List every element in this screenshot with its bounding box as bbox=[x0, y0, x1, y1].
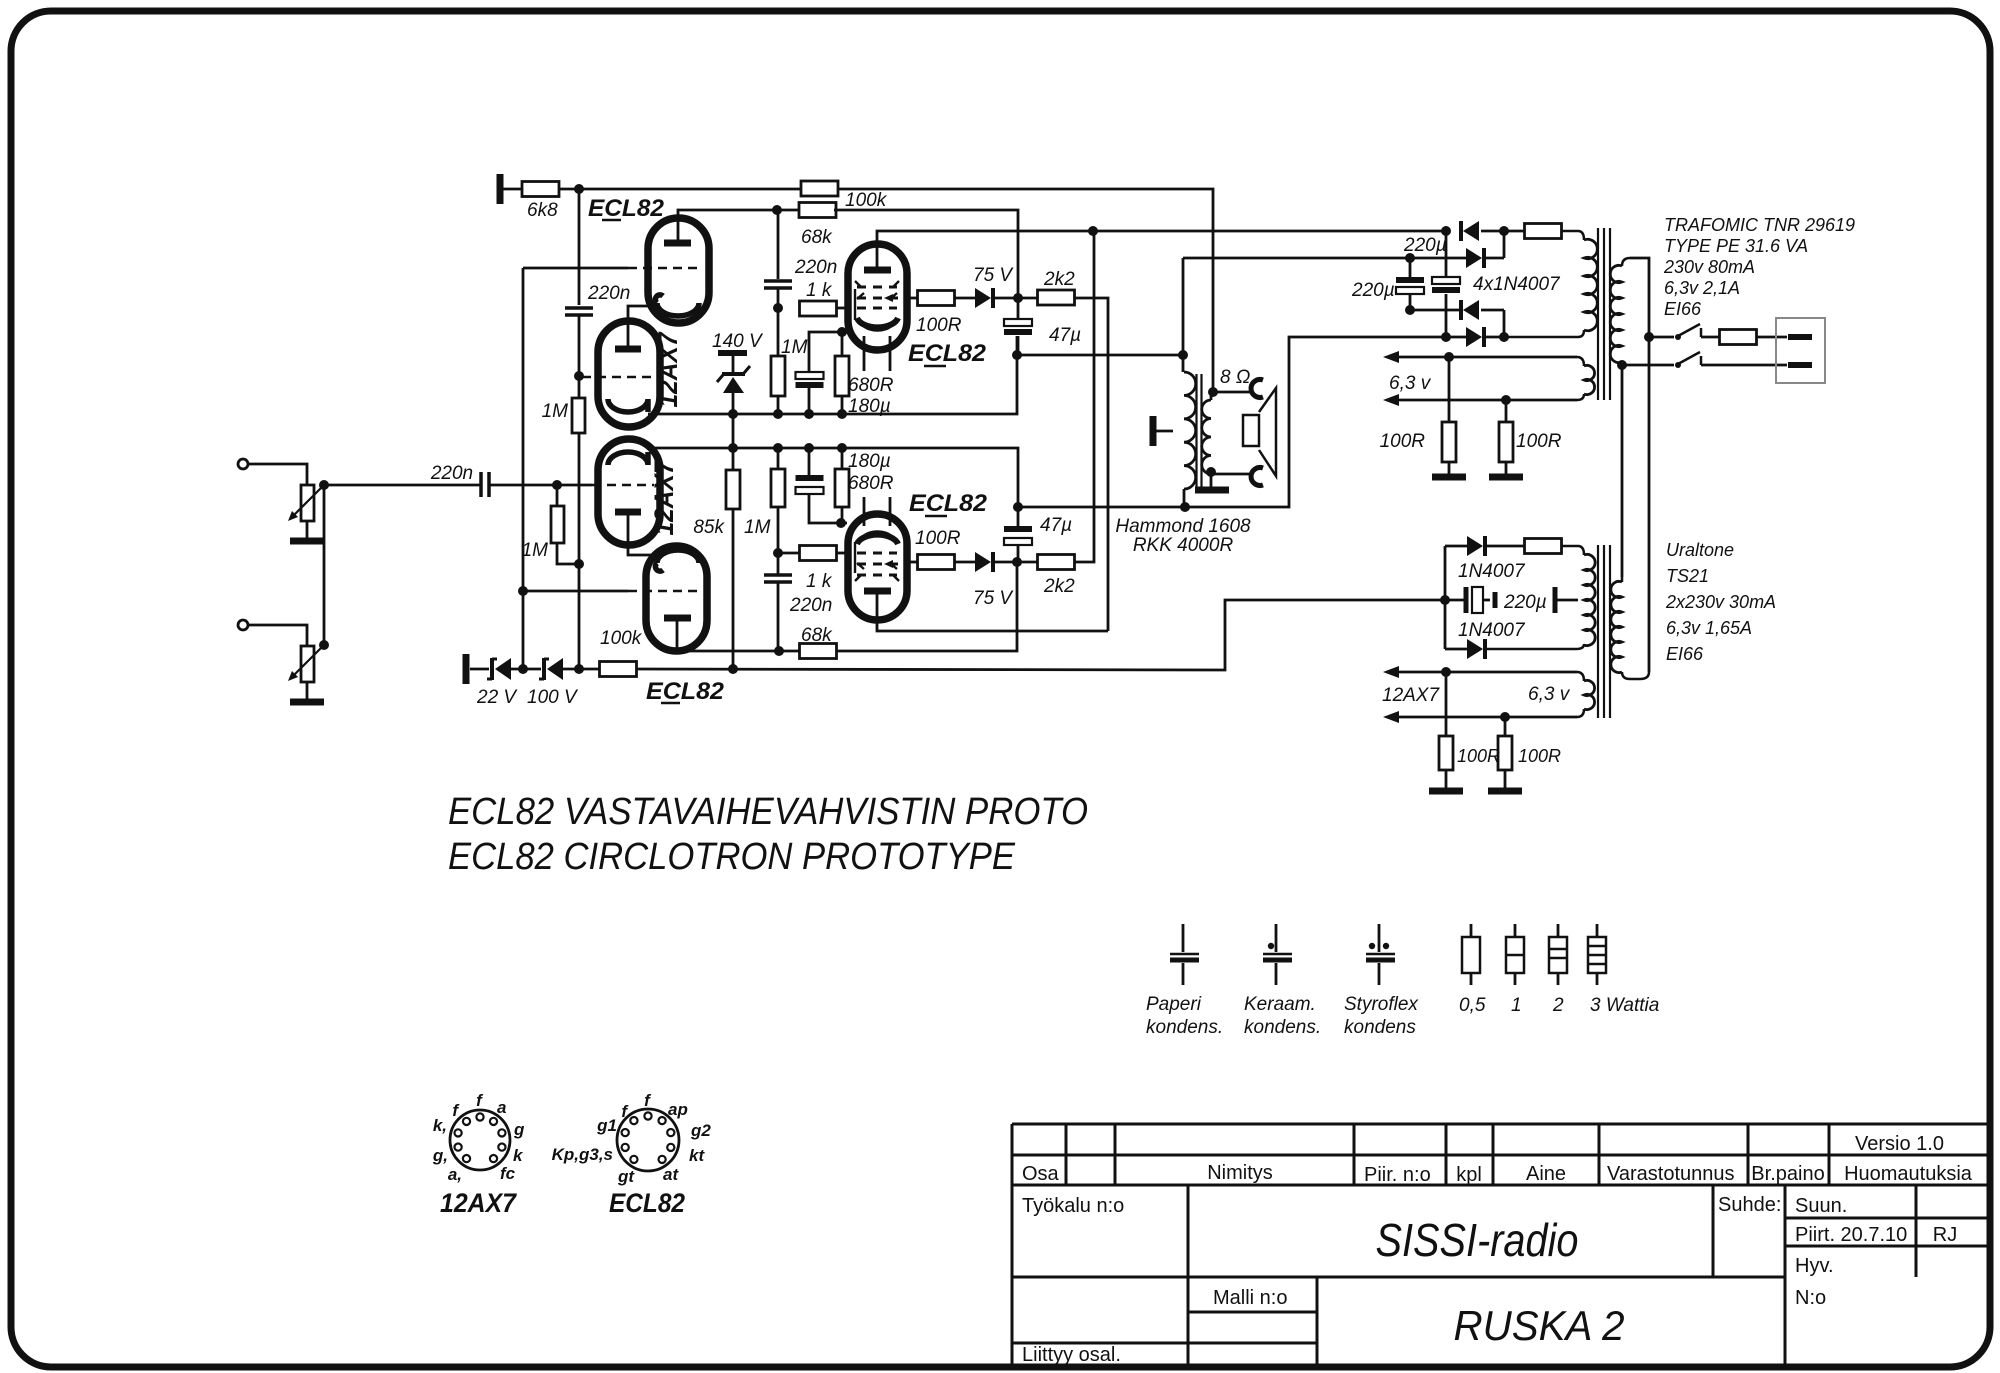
PT1 primary coil bbox=[1622, 258, 1630, 266]
svg-text:Keraam.: Keraam. bbox=[1244, 994, 1316, 1015]
wire bbox=[777, 288, 780, 308]
capacitor 220u bias bbox=[1464, 587, 1469, 613]
wire mains L down bbox=[1648, 337, 1651, 672]
node P2 wiper bbox=[319, 640, 329, 650]
svg-text:140 V: 140 V bbox=[712, 331, 764, 352]
svg-text:Uraltone: Uraltone bbox=[1666, 540, 1734, 560]
svg-text:Varastotunnus: Varastotunnus bbox=[1607, 1163, 1735, 1185]
wire bbox=[841, 448, 844, 469]
svg-text:1M: 1M bbox=[744, 517, 771, 538]
node cathode rail upper tap bbox=[728, 409, 738, 419]
wire mains top bbox=[1630, 258, 1649, 337]
socket 12AX7 pinout bbox=[450, 1110, 510, 1170]
node 680R top bbox=[837, 327, 847, 337]
wire bbox=[578, 564, 581, 669]
speaker hook bottom bbox=[1251, 467, 1263, 485]
diode D1 1N4007 bbox=[1459, 221, 1463, 241]
legend resistor 0.5W bbox=[1470, 924, 1473, 937]
resistor 100R heater3 bbox=[1445, 672, 1448, 736]
wire P2 to ground bbox=[306, 682, 309, 699]
wire bbox=[993, 561, 1038, 564]
node mains N bbox=[1617, 360, 1627, 370]
zener 22V bbox=[490, 658, 494, 680]
svg-text:2k2: 2k2 bbox=[1043, 576, 1075, 597]
potentiometer P1 bbox=[301, 485, 314, 521]
inter-channel wire bbox=[323, 485, 326, 645]
node speaker top bbox=[1208, 387, 1218, 397]
wire bbox=[777, 396, 780, 414]
tube T5 ECL82 envelope bbox=[848, 244, 907, 350]
svg-text:fc: fc bbox=[500, 1164, 516, 1183]
ground heater2 bbox=[1489, 474, 1523, 481]
svg-text:100R: 100R bbox=[1380, 431, 1426, 452]
svg-text:ECL82: ECL82 bbox=[588, 195, 665, 222]
PT2 core bbox=[1597, 545, 1599, 718]
svg-text:Br.paino: Br.paino bbox=[1751, 1163, 1824, 1185]
wire bbox=[578, 433, 581, 564]
svg-text:220n: 220n bbox=[789, 595, 832, 616]
svg-text:Työkalu n:o: Työkalu n:o bbox=[1022, 1195, 1124, 1217]
node 68k-left upper bbox=[772, 205, 782, 215]
PT1 6.3v arrows bbox=[1383, 351, 1399, 363]
svg-text:Paperi: Paperi bbox=[1146, 994, 1202, 1015]
tube T3 12AX7 envelope bbox=[598, 439, 660, 545]
svg-text:a: a bbox=[497, 1098, 506, 1117]
node D4 out bbox=[1499, 332, 1509, 342]
diode DU2 1N4007 bbox=[1445, 648, 1467, 651]
ground heater4 bbox=[1488, 788, 1522, 795]
node P1 wiper bbox=[319, 480, 329, 490]
capacitor 220n upper block bbox=[764, 279, 792, 283]
svg-text:180µ: 180µ bbox=[848, 451, 891, 472]
node T4 grid tap bbox=[518, 586, 528, 596]
svg-text:k,: k, bbox=[433, 1116, 447, 1135]
svg-text:Liittyy osal.: Liittyy osal. bbox=[1022, 1344, 1121, 1366]
svg-text:100R: 100R bbox=[1457, 746, 1500, 766]
terminal bar 140V bbox=[718, 350, 747, 356]
wire bbox=[808, 448, 811, 475]
T6 grids dashed bbox=[857, 552, 897, 555]
svg-text:TYPE PE 31.6 VA: TYPE PE 31.6 VA bbox=[1664, 236, 1808, 256]
T6 anode bbox=[864, 588, 891, 595]
capacitor 220n input upper bbox=[565, 306, 593, 310]
svg-text:Hyv.: Hyv. bbox=[1795, 1255, 1834, 1277]
node mains L bbox=[1644, 332, 1654, 342]
wire bbox=[563, 668, 600, 671]
svg-text:100k: 100k bbox=[845, 190, 888, 211]
svg-text:SISSI-radio: SISSI-radio bbox=[1376, 1214, 1579, 1266]
svg-text:12AX7: 12AX7 bbox=[1382, 685, 1440, 706]
node 1k row lower bbox=[773, 548, 783, 558]
node heater R1 bbox=[1444, 352, 1454, 362]
resistor 100k bias bbox=[600, 662, 637, 677]
resistor 680R upper bbox=[835, 356, 849, 396]
fuse mains bbox=[1701, 336, 1720, 339]
speaker horn bbox=[1259, 388, 1276, 476]
wire bbox=[732, 356, 735, 372]
wire output row lower bbox=[1018, 337, 1446, 507]
node 47u lower to output row bbox=[1013, 502, 1023, 512]
node 6k8-right bbox=[574, 184, 584, 194]
wire x778 column upper bbox=[777, 210, 780, 279]
resistor 100R lower bbox=[918, 555, 955, 570]
wire speaker bottom bbox=[1211, 473, 1252, 476]
svg-text:1 k: 1 k bbox=[806, 280, 833, 301]
input jack J1 bbox=[238, 459, 248, 469]
svg-text:12AX7: 12AX7 bbox=[653, 331, 683, 408]
ground P1 bbox=[290, 538, 324, 545]
OPT primary coil bbox=[1182, 355, 1185, 372]
svg-text:4x1N4007: 4x1N4007 bbox=[1473, 274, 1561, 295]
diode D4 1N4007 bbox=[1466, 327, 1482, 347]
wire bbox=[907, 561, 918, 564]
svg-text:kondens.: kondens. bbox=[1146, 1017, 1223, 1038]
node 180u upper bbox=[804, 409, 814, 419]
svg-text:8 Ω: 8 Ω bbox=[1220, 367, 1250, 388]
speaker hook top bbox=[1251, 379, 1263, 397]
svg-text:Suhde:: Suhde: bbox=[1718, 1194, 1781, 1216]
svg-text:1: 1 bbox=[1511, 995, 1522, 1016]
svg-text:12AX7: 12AX7 bbox=[440, 1188, 518, 1218]
svg-text:680R: 680R bbox=[848, 473, 894, 494]
wire bbox=[556, 485, 559, 506]
svg-text:Huomautuksia: Huomautuksia bbox=[1844, 1163, 1973, 1185]
capacitor 47u upper bbox=[1017, 298, 1020, 319]
svg-text:Osa: Osa bbox=[1022, 1163, 1060, 1185]
T6 cathode arcs bbox=[857, 535, 898, 544]
wire T4 anode to 68k row bbox=[677, 618, 800, 651]
wire 2k2 upper to cross column bbox=[1074, 298, 1108, 631]
svg-text:220µ: 220µ bbox=[1503, 592, 1547, 613]
capacitor 180u upper bbox=[796, 372, 824, 379]
svg-text:kpl: kpl bbox=[1456, 1164, 1482, 1186]
wire bbox=[841, 332, 844, 356]
fuse Uraltone bbox=[1485, 545, 1525, 548]
node cathode rail lower tap bbox=[728, 443, 738, 453]
potentiometer P2 bbox=[301, 646, 314, 682]
svg-text:g1: g1 bbox=[596, 1116, 617, 1135]
wire 85k to bias row bbox=[732, 509, 735, 669]
wire bbox=[1481, 309, 1504, 312]
svg-text:2x230v 30mA: 2x230v 30mA bbox=[1665, 592, 1776, 612]
svg-text:gt: gt bbox=[617, 1167, 635, 1186]
node cross lower 2k2 bbox=[1088, 226, 1098, 236]
wire bias row to PSU bbox=[636, 600, 1445, 670]
wire main input row bbox=[324, 484, 481, 487]
wire T3 anode to T4 cathode bbox=[628, 512, 651, 555]
resistor 2k2 lower bbox=[1038, 555, 1075, 570]
svg-text:Nimitys: Nimitys bbox=[1207, 1162, 1273, 1184]
PT1 HV coil bbox=[1584, 239, 1597, 330]
input jack J2 bbox=[238, 620, 248, 630]
svg-text:100R: 100R bbox=[1518, 746, 1561, 766]
ground P2 bbox=[290, 699, 324, 706]
resistor 85k bbox=[726, 470, 740, 509]
wire T1 anode to 68k bbox=[678, 210, 801, 243]
resistor 100R heater4 bbox=[1504, 717, 1507, 736]
T3 anode bbox=[615, 509, 641, 516]
svg-text:ECL82: ECL82 bbox=[908, 340, 987, 367]
wire bbox=[511, 668, 541, 671]
wire bbox=[1481, 230, 1525, 233]
ground heater3 bbox=[1429, 788, 1463, 795]
plug prong L bbox=[1788, 334, 1812, 340]
svg-text:230v 80mA: 230v 80mA bbox=[1663, 257, 1755, 277]
diode D3 1N4007 bbox=[1459, 300, 1463, 320]
legend styroflex capacitor bbox=[1378, 924, 1381, 952]
svg-text:kondens.: kondens. bbox=[1244, 1017, 1321, 1038]
resistor 100R upper bbox=[918, 291, 955, 306]
tube T2 12AX7 envelope bbox=[598, 321, 660, 427]
wire 68k upper to node column bbox=[834, 210, 1018, 298]
node OPT primary top bbox=[1178, 350, 1188, 360]
wire bbox=[1484, 257, 1504, 260]
svg-text:68k: 68k bbox=[801, 227, 833, 248]
switch S1 bbox=[1649, 336, 1674, 339]
svg-text:a,: a, bbox=[448, 1165, 462, 1184]
wire fuse to coil bbox=[1561, 231, 1584, 240]
svg-text:g2: g2 bbox=[690, 1121, 711, 1140]
wire bbox=[993, 297, 1038, 300]
node 1M block upper bbox=[773, 409, 783, 419]
tube T1 ECL82 envelope bbox=[648, 218, 709, 323]
svg-text:N:o: N:o bbox=[1795, 1287, 1826, 1309]
node 68k-left lower bbox=[774, 646, 784, 656]
svg-text:3 Wattia: 3 Wattia bbox=[1590, 995, 1659, 1016]
resistor 100R heater1 bbox=[1448, 357, 1451, 422]
zener 140V bbox=[722, 372, 745, 376]
wire bbox=[1485, 644, 1584, 649]
resistor 1M upper input bbox=[572, 398, 585, 433]
plug prong N bbox=[1788, 362, 1812, 368]
T6 heater pins bbox=[863, 497, 866, 526]
svg-text:6,3 v: 6,3 v bbox=[1528, 684, 1571, 705]
wire 68k lower to node column bbox=[836, 562, 1017, 651]
svg-text:Styroflex: Styroflex bbox=[1344, 994, 1419, 1015]
svg-text:ECL82 VASTAVAIHEVAHVISTIN PROT: ECL82 VASTAVAIHEVAHVISTIN PROTO bbox=[448, 791, 1088, 833]
node 1k row upper bbox=[773, 303, 783, 313]
svg-text:RUSKA 2: RUSKA 2 bbox=[1454, 1302, 1625, 1349]
wire mains N down bbox=[1621, 362, 1624, 577]
svg-text:1N4007: 1N4007 bbox=[1458, 620, 1526, 641]
node T2 grid bbox=[574, 371, 584, 381]
node bridge D left bbox=[1441, 332, 1451, 342]
svg-text:220n: 220n bbox=[794, 257, 837, 278]
node OPT primary bottom bbox=[1180, 502, 1190, 512]
svg-text:Piirt. 20.7.10: Piirt. 20.7.10 bbox=[1795, 1224, 1907, 1246]
PT2 primary coil bbox=[1621, 577, 1624, 582]
T1 grid wire bbox=[523, 267, 628, 270]
wire P1 to ground bbox=[306, 521, 309, 538]
wire T5 anode to B+ upper bbox=[877, 231, 1446, 270]
capacitor 180u lower bbox=[796, 475, 824, 481]
node heater R3 bbox=[1441, 667, 1451, 677]
wire to T3 grid bbox=[489, 484, 592, 487]
svg-text:100R: 100R bbox=[915, 528, 961, 549]
node heater R2 bbox=[1501, 395, 1511, 405]
wire row C bbox=[1410, 309, 1461, 312]
svg-text:47µ: 47µ bbox=[1040, 515, 1072, 536]
wire bbox=[248, 625, 307, 646]
plug outline bbox=[1776, 318, 1825, 383]
T2 cathode bbox=[608, 399, 648, 412]
svg-text:Hammond 1608: Hammond 1608 bbox=[1115, 516, 1251, 537]
svg-text:2: 2 bbox=[1552, 995, 1564, 1016]
node row C bbox=[1405, 305, 1415, 315]
wire 2k2 lower to cross column bbox=[1074, 231, 1094, 562]
svg-text:100R: 100R bbox=[1516, 431, 1562, 452]
tube T4 ECL82 envelope bbox=[646, 546, 707, 651]
svg-text:EI66: EI66 bbox=[1664, 299, 1702, 319]
svg-text:ECL82: ECL82 bbox=[609, 1188, 685, 1218]
T4 cathode bbox=[655, 550, 699, 571]
T4 grid wire bbox=[523, 590, 628, 593]
svg-text:220n: 220n bbox=[587, 283, 630, 304]
resistor 680R lower bbox=[835, 469, 849, 507]
wire row B bbox=[1183, 257, 1466, 260]
wire bbox=[470, 668, 489, 671]
capacitor 220u B bbox=[1445, 231, 1448, 277]
tube T6 ECL82 envelope bbox=[848, 514, 907, 620]
OPT core bbox=[1195, 374, 1197, 492]
resistor 1M upper block bbox=[771, 356, 785, 396]
svg-text:1M: 1M bbox=[522, 540, 549, 561]
svg-text:22 V: 22 V bbox=[476, 687, 518, 708]
node Uraltone neg bbox=[1440, 595, 1450, 605]
svg-text:kt: kt bbox=[689, 1146, 705, 1165]
svg-text:TS21: TS21 bbox=[1666, 566, 1709, 586]
svg-text:220n: 220n bbox=[430, 463, 473, 484]
svg-text:6,3v 1,65A: 6,3v 1,65A bbox=[1666, 618, 1752, 638]
svg-text:g,: g, bbox=[432, 1146, 448, 1165]
T5 grids dashed bbox=[857, 286, 897, 289]
node speaker bottom bbox=[1206, 467, 1216, 477]
node bias x579 bbox=[574, 664, 584, 674]
resistor 1M lower input bbox=[551, 506, 564, 543]
svg-text:Aine: Aine bbox=[1526, 1163, 1566, 1185]
svg-text:Kp,g3,s: Kp,g3,s bbox=[552, 1145, 613, 1164]
capacitor 220n input series bbox=[479, 472, 483, 497]
svg-text:TRAFOMIC TNR 29619: TRAFOMIC TNR 29619 bbox=[1664, 215, 1855, 235]
svg-text:2k2: 2k2 bbox=[1043, 269, 1075, 290]
ground OPT secondary bbox=[1195, 487, 1229, 494]
wire bbox=[907, 297, 918, 300]
svg-text:100R: 100R bbox=[916, 315, 962, 336]
node 85k bias tap bbox=[728, 664, 738, 674]
resistor 100R heater2 bbox=[1505, 400, 1508, 422]
resistor 2k2 upper bbox=[1038, 290, 1075, 305]
wire bbox=[777, 553, 780, 575]
svg-text:RJ: RJ bbox=[1933, 1224, 1957, 1246]
wire cathode rail lower bbox=[648, 448, 1018, 507]
wire T6 anode row bbox=[877, 591, 1108, 631]
svg-text:ECL82 CIRCLOTRON PROTOTYPE: ECL82 CIRCLOTRON PROTOTYPE bbox=[448, 836, 1016, 878]
T3 cathode bbox=[608, 452, 648, 465]
capacitor 47u lower bbox=[1017, 545, 1020, 562]
wire cathode rail upper bbox=[648, 336, 1017, 414]
node row B cap bbox=[1405, 253, 1415, 263]
legend resistor 3W bbox=[1596, 924, 1599, 937]
svg-text:12AX7: 12AX7 bbox=[649, 459, 679, 536]
svg-text:0,5: 0,5 bbox=[1459, 995, 1486, 1016]
T1 anode bbox=[664, 240, 691, 247]
T2 anode bbox=[615, 346, 641, 353]
node 680R lower bbox=[837, 443, 847, 453]
resistor 6k8 bbox=[522, 182, 559, 197]
OPT center stub bbox=[1150, 416, 1157, 446]
PT2 6.3v winding bbox=[1577, 672, 1584, 681]
svg-text:ECL82: ECL82 bbox=[909, 490, 988, 517]
T1 cathode bbox=[655, 295, 699, 316]
svg-text:kondens: kondens bbox=[1344, 1017, 1416, 1038]
svg-text:180µ: 180µ bbox=[848, 396, 891, 417]
svg-text:75 V: 75 V bbox=[973, 588, 1014, 609]
node 1M lower join bbox=[574, 559, 584, 569]
wire bbox=[248, 464, 307, 485]
zener 100V bbox=[542, 658, 546, 680]
svg-text:47µ: 47µ bbox=[1049, 325, 1081, 346]
legend resistor 1W bbox=[1514, 924, 1517, 937]
node 180u lower bbox=[804, 443, 814, 453]
terminal stub T-supply1 bbox=[497, 174, 504, 204]
wire bbox=[578, 315, 581, 376]
wire bbox=[503, 188, 523, 191]
svg-text:Piir. n:o: Piir. n:o bbox=[1364, 1164, 1431, 1186]
svg-text:Malli n:o: Malli n:o bbox=[1213, 1287, 1287, 1309]
resistor 1k upper bbox=[800, 301, 837, 316]
svg-text:680R: 680R bbox=[848, 375, 894, 396]
resistor 68k upper bbox=[799, 203, 836, 218]
svg-text:1M: 1M bbox=[781, 337, 808, 358]
wire B+ top to feedback corner bbox=[558, 188, 801, 191]
diode 75V lower bbox=[975, 552, 991, 572]
wire 180u top to cathode line bbox=[809, 332, 847, 372]
svg-text:68k: 68k bbox=[801, 625, 833, 646]
legend paper capacitor bbox=[1182, 924, 1185, 952]
svg-text:100k: 100k bbox=[600, 628, 643, 649]
capacitor 220u A bbox=[1409, 258, 1412, 277]
PT1 core bbox=[1597, 228, 1599, 400]
title block table bbox=[1012, 1123, 1990, 1126]
svg-text:Suun.: Suun. bbox=[1795, 1195, 1847, 1217]
wire output row upper bbox=[1017, 354, 1183, 357]
svg-text:ap: ap bbox=[668, 1100, 688, 1119]
svg-text:Versio 1.0: Versio 1.0 bbox=[1855, 1133, 1944, 1155]
svg-text:EI66: EI66 bbox=[1666, 644, 1704, 664]
wire to coil bottom bbox=[1504, 330, 1584, 337]
node lower output bbox=[1012, 557, 1022, 567]
wire bbox=[808, 386, 811, 414]
terminal stub bias bbox=[463, 654, 470, 684]
node upper output bbox=[1013, 293, 1023, 303]
legend ceramic capacitor bbox=[1275, 924, 1278, 952]
wire 1M upper block bbox=[777, 308, 780, 356]
svg-text:k: k bbox=[513, 1146, 524, 1165]
T5 cathode bbox=[857, 318, 898, 327]
fuse PSU1 bbox=[1525, 224, 1562, 239]
PT2 HV coil bbox=[1584, 554, 1595, 645]
capacitor 220n lower block bbox=[764, 573, 792, 577]
PT1 6.3v winding bbox=[1577, 357, 1584, 366]
svg-text:6,3 v: 6,3 v bbox=[1389, 373, 1432, 394]
resistor 100k upper bbox=[801, 181, 838, 196]
switch S2 bbox=[1622, 364, 1674, 367]
resistor 1k lower bbox=[800, 546, 837, 561]
wire bbox=[1446, 336, 1466, 339]
svg-text:220µ: 220µ bbox=[1351, 280, 1395, 301]
svg-text:RKK 4000R: RKK 4000R bbox=[1133, 535, 1234, 556]
wire 1M to x579 bbox=[557, 543, 579, 564]
